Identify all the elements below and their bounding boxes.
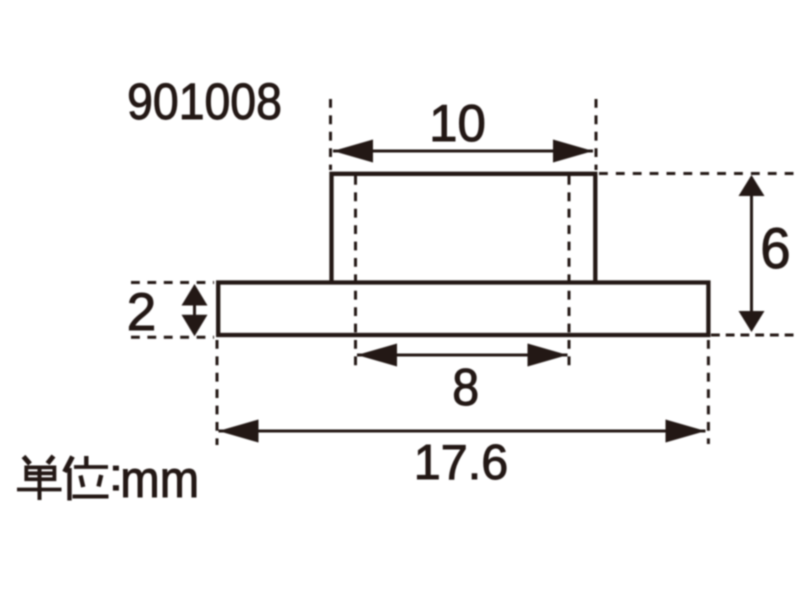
extension line: dim 10 left (dashed vertical): [329, 99, 332, 170]
flange outline (17.6 x 2 base plate): [218, 283, 708, 336]
svg-text:8: 8: [452, 358, 479, 416]
extension line: dim 17.6 left (dashed vertical): [216, 340, 219, 445]
arrowhead dim2 up: [182, 284, 208, 306]
arrowhead dim17.6 right: [666, 420, 706, 443]
dimension line 8: [357, 354, 568, 357]
dimension line 6: [750, 177, 753, 330]
arrowhead dim8 right: [528, 344, 568, 367]
svg-text:2: 2: [127, 283, 156, 342]
crown outline (10 x 6 upper block): [332, 174, 596, 283]
extension line: dim 17.6 right (dashed vertical): [707, 340, 710, 444]
arrowhead dim10 left: [333, 140, 373, 163]
svg-text:6: 6: [760, 216, 790, 281]
dimension line 2 (short stub between arrows): [193, 302, 196, 318]
arrowhead dim6 up: [739, 175, 765, 196]
svg-text:10: 10: [429, 95, 486, 152]
svg-text:17.6: 17.6: [414, 436, 508, 491]
extension line: dim 6 bottom (dashed horizontal): [711, 334, 794, 337]
extension line: dim 6 top (dashed horizontal): [599, 172, 794, 175]
unit label kanji 単 (hand-drawn strokes): [17, 456, 62, 500]
arrowhead dim10 right: [553, 140, 593, 163]
dimension line 10: [333, 150, 593, 153]
extension line: dim 10 right (dashed vertical): [595, 99, 598, 170]
extension line: dim 8 left (dashed vertical): [354, 176, 357, 370]
svg-text:901008: 901008: [127, 74, 282, 130]
arrowhead dim8 left: [357, 344, 397, 367]
svg-text:mm: mm: [120, 450, 199, 509]
extension line: dim 2 top (dashed horizontal): [131, 281, 214, 284]
extension line: dim 2 bottom (dashed horizontal): [131, 336, 214, 339]
unit label colon (lower dot): [113, 485, 119, 490]
arrowhead dim17.6 left: [219, 420, 259, 443]
unit label colon (upper dot): [113, 466, 119, 471]
arrowhead dim2 down: [182, 315, 208, 336]
arrowhead dim6 down: [739, 311, 765, 332]
extension line: dim 8 right (dashed vertical): [568, 176, 571, 370]
unit label kanji 位 (hand-drawn strokes): [65, 456, 109, 501]
dimension line 17.6: [219, 430, 706, 433]
